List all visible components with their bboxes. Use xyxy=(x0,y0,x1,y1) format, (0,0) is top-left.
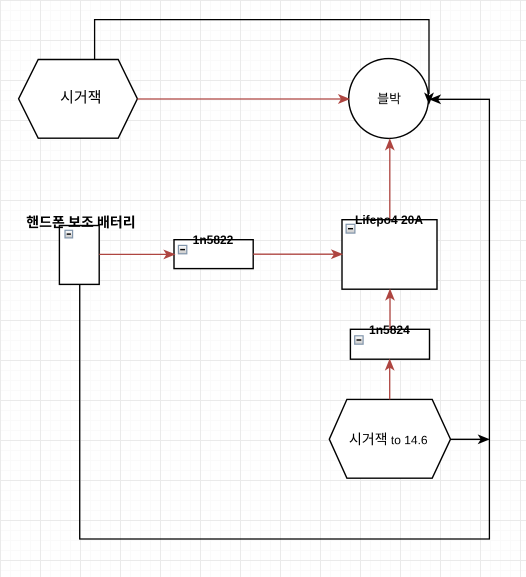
svg-text:1n5822: 1n5822 xyxy=(193,233,234,247)
svg-text:1n5824: 1n5824 xyxy=(369,323,410,337)
svg-text:Lifepo4 20A: Lifepo4 20A xyxy=(355,213,423,227)
